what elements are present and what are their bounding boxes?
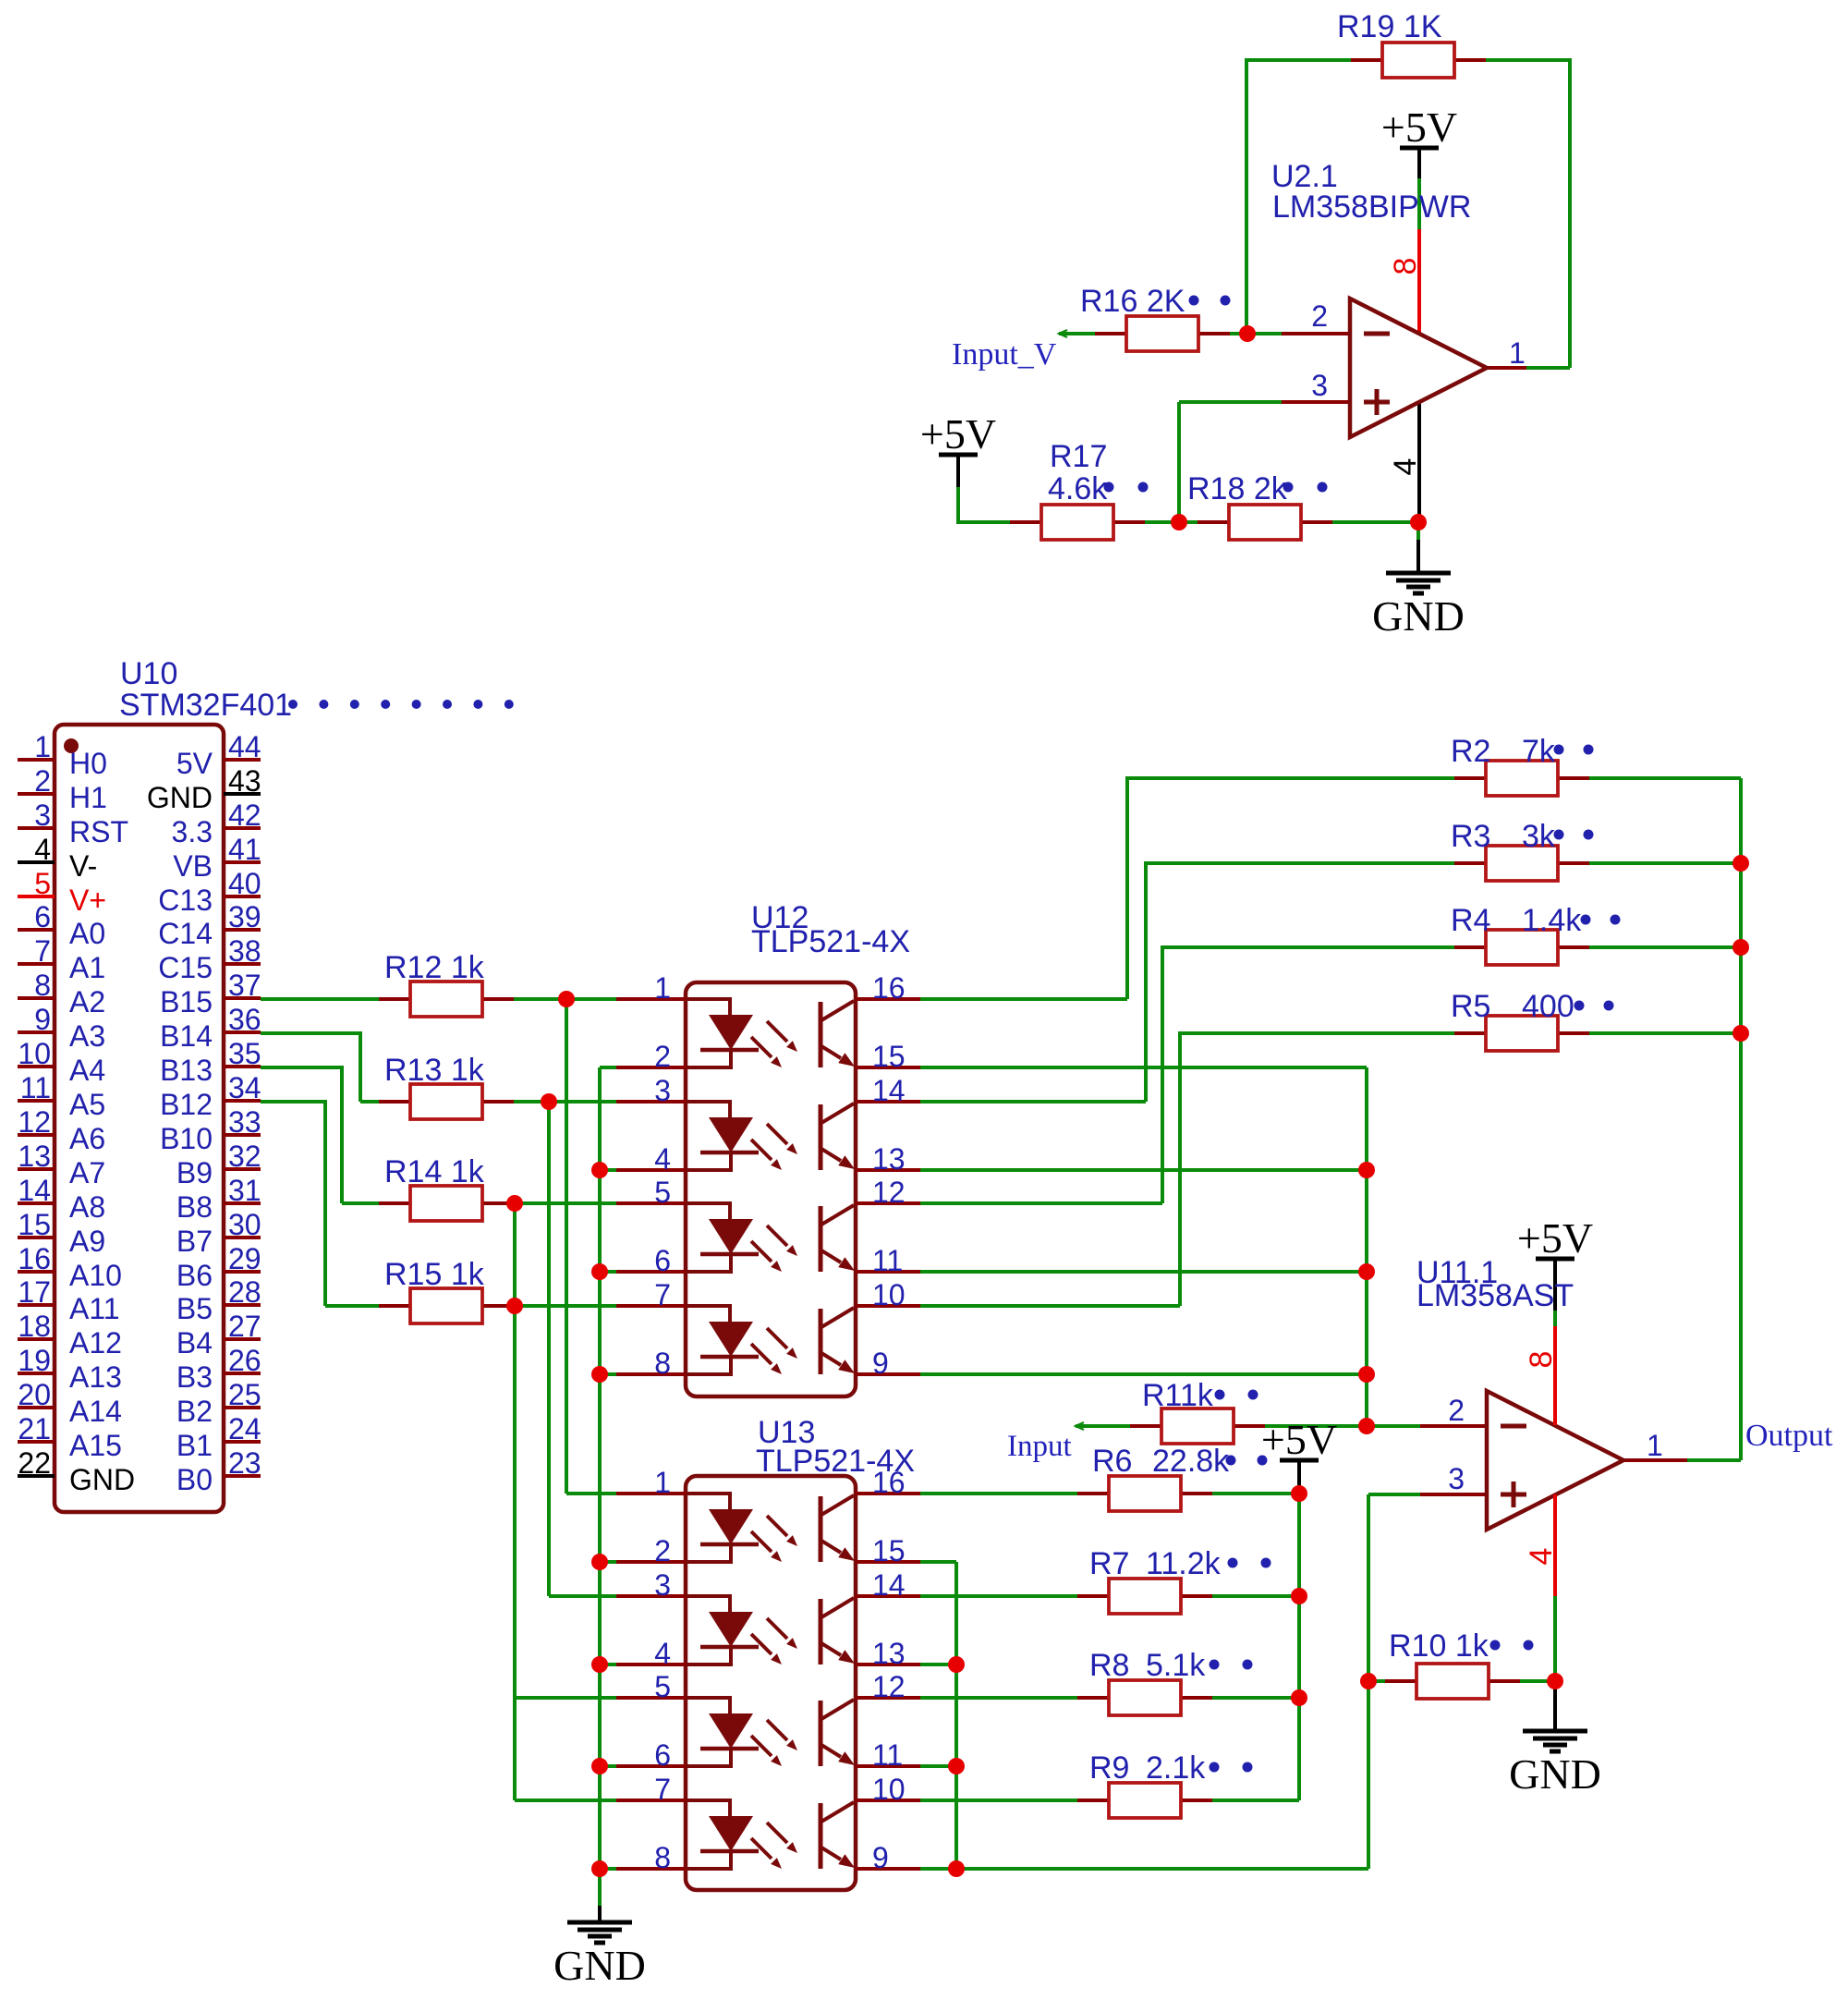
svg-text:4: 4 — [1388, 458, 1423, 476]
svg-text:B14: B14 — [160, 1019, 213, 1053]
svg-text:R3: R3 — [1451, 819, 1490, 854]
svg-text:+5V: +5V — [920, 410, 996, 457]
svg-text:35: 35 — [228, 1037, 261, 1070]
svg-text:18: 18 — [18, 1310, 51, 1343]
svg-text:42: 42 — [228, 799, 261, 832]
svg-text:22.8k: 22.8k — [1152, 1444, 1230, 1479]
svg-text:B7: B7 — [176, 1225, 213, 1258]
svg-text:10: 10 — [872, 1773, 906, 1806]
svg-text:3.3: 3.3 — [172, 815, 213, 848]
svg-text:5V: 5V — [176, 747, 213, 780]
svg-text:Input: Input — [1007, 1430, 1072, 1463]
svg-text:1: 1 — [1509, 336, 1526, 370]
svg-text:5: 5 — [654, 1176, 671, 1209]
svg-text:GND: GND — [553, 1942, 646, 1989]
svg-text:A4: A4 — [69, 1054, 105, 1087]
svg-text:10: 10 — [18, 1037, 51, 1070]
svg-text:R4: R4 — [1451, 903, 1490, 938]
svg-text:2: 2 — [1448, 1394, 1465, 1427]
svg-text:B1: B1 — [176, 1429, 213, 1462]
svg-text:R19 1K: R19 1K — [1337, 9, 1442, 44]
svg-text:11: 11 — [872, 1738, 903, 1772]
svg-text:B6: B6 — [176, 1259, 213, 1292]
svg-text:7: 7 — [654, 1773, 671, 1806]
svg-text:21: 21 — [18, 1412, 51, 1445]
svg-text:3k: 3k — [1522, 819, 1556, 854]
svg-text:B5: B5 — [176, 1292, 213, 1325]
svg-text:3: 3 — [1311, 369, 1328, 402]
svg-text:C14: C14 — [158, 917, 213, 950]
svg-text:2: 2 — [654, 1534, 671, 1567]
svg-text:H0: H0 — [69, 747, 107, 780]
svg-text:R9: R9 — [1089, 1750, 1129, 1786]
svg-text:15: 15 — [872, 1040, 906, 1073]
svg-text:B0: B0 — [176, 1463, 213, 1496]
svg-text:A3: A3 — [69, 1019, 105, 1053]
svg-text:+5V: +5V — [1381, 104, 1457, 151]
svg-text:GND: GND — [147, 781, 213, 814]
svg-text:STM32F401: STM32F401 — [119, 688, 292, 723]
svg-text:A6: A6 — [69, 1122, 105, 1155]
svg-text:B12: B12 — [160, 1088, 213, 1121]
svg-text:9: 9 — [34, 1003, 51, 1036]
svg-text:5.1k: 5.1k — [1146, 1648, 1206, 1683]
svg-text:3: 3 — [654, 1074, 671, 1107]
svg-text:3: 3 — [34, 799, 51, 832]
svg-text:2: 2 — [1311, 299, 1328, 333]
svg-text:31: 31 — [228, 1174, 261, 1207]
svg-text:R11k: R11k — [1142, 1378, 1214, 1413]
svg-text:A0: A0 — [69, 917, 105, 950]
svg-text:B3: B3 — [176, 1360, 213, 1394]
svg-text:A9: A9 — [69, 1225, 105, 1258]
svg-text:A10: A10 — [69, 1259, 122, 1292]
svg-text:7: 7 — [654, 1278, 671, 1311]
svg-text:11: 11 — [20, 1071, 51, 1104]
svg-text:8: 8 — [654, 1841, 671, 1874]
svg-text:A11: A11 — [69, 1292, 120, 1325]
svg-text:25: 25 — [228, 1378, 261, 1411]
svg-text:30: 30 — [228, 1208, 261, 1241]
svg-text:22: 22 — [18, 1446, 51, 1480]
svg-text:3: 3 — [1448, 1462, 1465, 1495]
svg-text:41: 41 — [228, 833, 261, 866]
svg-text:38: 38 — [228, 934, 261, 968]
svg-text:B2: B2 — [176, 1395, 213, 1428]
svg-text:16: 16 — [18, 1242, 51, 1275]
svg-text:+5V: +5V — [1261, 1416, 1337, 1463]
svg-text:37: 37 — [228, 969, 261, 1002]
svg-text:A1: A1 — [69, 951, 105, 984]
svg-text:B8: B8 — [176, 1190, 213, 1224]
svg-text:6: 6 — [654, 1244, 671, 1277]
svg-text:R15 1k: R15 1k — [384, 1257, 485, 1292]
svg-text:12: 12 — [872, 1670, 906, 1703]
svg-text:R5: R5 — [1451, 989, 1490, 1024]
svg-text:40: 40 — [228, 867, 261, 900]
svg-text:A14: A14 — [69, 1395, 122, 1428]
svg-text:15: 15 — [872, 1534, 906, 1567]
svg-text:32: 32 — [228, 1140, 261, 1173]
svg-text:400: 400 — [1522, 989, 1574, 1024]
svg-text:B13: B13 — [160, 1054, 213, 1087]
svg-text:A8: A8 — [69, 1190, 105, 1224]
svg-text:4: 4 — [654, 1637, 671, 1670]
svg-text:44: 44 — [228, 730, 261, 763]
svg-text:1: 1 — [654, 1466, 671, 1499]
svg-text:29: 29 — [228, 1242, 261, 1275]
svg-text:6: 6 — [34, 900, 51, 933]
svg-text:R17: R17 — [1050, 439, 1107, 474]
svg-text:R13 1k: R13 1k — [384, 1053, 485, 1088]
svg-text:4: 4 — [34, 833, 51, 866]
svg-text:GND: GND — [69, 1463, 135, 1496]
svg-text:27: 27 — [228, 1310, 261, 1343]
svg-text:TLP521-4X: TLP521-4X — [756, 1444, 915, 1479]
svg-text:TLP521-4X: TLP521-4X — [751, 924, 910, 959]
svg-text:RST: RST — [69, 815, 128, 848]
svg-text:A5: A5 — [69, 1088, 105, 1121]
svg-text:12: 12 — [18, 1105, 51, 1139]
svg-text:20: 20 — [18, 1378, 51, 1411]
svg-text:R16 2K: R16 2K — [1080, 284, 1185, 319]
svg-text:4: 4 — [1524, 1548, 1559, 1566]
svg-text:13: 13 — [18, 1140, 51, 1173]
svg-text:A7: A7 — [69, 1156, 105, 1189]
svg-text:2: 2 — [34, 764, 51, 798]
svg-text:4: 4 — [654, 1142, 671, 1176]
svg-text:11: 11 — [872, 1244, 903, 1277]
svg-text:Output: Output — [1745, 1419, 1833, 1453]
svg-text:13: 13 — [872, 1637, 906, 1670]
svg-text:28: 28 — [228, 1275, 261, 1309]
svg-text:A2: A2 — [69, 985, 105, 1018]
svg-text:13: 13 — [872, 1142, 906, 1176]
svg-text:A13: A13 — [69, 1360, 122, 1394]
svg-text:B4: B4 — [176, 1326, 213, 1360]
svg-text:14: 14 — [872, 1568, 906, 1602]
svg-text:39: 39 — [228, 900, 261, 933]
svg-text:15: 15 — [18, 1208, 51, 1241]
svg-text:34: 34 — [228, 1071, 261, 1104]
svg-text:2.1k: 2.1k — [1146, 1750, 1206, 1786]
svg-text:VB: VB — [173, 849, 213, 883]
svg-text:7k: 7k — [1522, 734, 1556, 769]
svg-text:19: 19 — [18, 1344, 51, 1377]
svg-text:R12 1k: R12 1k — [384, 950, 485, 985]
svg-text:17: 17 — [18, 1275, 51, 1309]
svg-text:14: 14 — [872, 1074, 906, 1107]
svg-text:R2: R2 — [1451, 734, 1490, 769]
svg-text:B9: B9 — [176, 1156, 213, 1189]
svg-text:26: 26 — [228, 1344, 261, 1377]
svg-text:C15: C15 — [158, 951, 213, 984]
svg-text:R18 2k: R18 2k — [1187, 471, 1288, 506]
svg-text:43: 43 — [228, 764, 261, 798]
svg-text:3: 3 — [654, 1568, 671, 1602]
svg-text:5: 5 — [654, 1670, 671, 1703]
svg-text:11.2k: 11.2k — [1146, 1546, 1222, 1581]
svg-text:1: 1 — [654, 971, 671, 1005]
svg-text:A12: A12 — [69, 1326, 122, 1360]
svg-text:C13: C13 — [158, 884, 213, 917]
svg-text:8: 8 — [654, 1347, 671, 1380]
svg-text:H1: H1 — [69, 781, 107, 814]
svg-text:B15: B15 — [160, 985, 213, 1018]
svg-text:V+: V+ — [69, 884, 106, 917]
svg-text:7: 7 — [34, 934, 51, 968]
svg-text:4.6k: 4.6k — [1048, 471, 1108, 506]
svg-text:24: 24 — [228, 1412, 261, 1445]
svg-text:Input_V: Input_V — [952, 337, 1057, 372]
svg-text:R14 1k: R14 1k — [384, 1154, 485, 1189]
svg-text:V-: V- — [69, 849, 97, 883]
svg-text:9: 9 — [872, 1841, 889, 1874]
svg-text:23: 23 — [228, 1446, 261, 1480]
svg-text:1: 1 — [1647, 1429, 1663, 1462]
svg-text:36: 36 — [228, 1003, 261, 1036]
svg-text:+5V: +5V — [1517, 1214, 1593, 1262]
svg-text:8: 8 — [1524, 1351, 1559, 1369]
svg-text:R8: R8 — [1089, 1648, 1129, 1683]
svg-text:10: 10 — [872, 1278, 906, 1311]
svg-text:2: 2 — [654, 1040, 671, 1073]
svg-text:LM358AST: LM358AST — [1416, 1278, 1574, 1313]
svg-text:33: 33 — [228, 1105, 261, 1139]
svg-text:B10: B10 — [160, 1122, 213, 1155]
svg-text:8: 8 — [1388, 258, 1423, 275]
svg-text:U10: U10 — [120, 656, 177, 691]
svg-text:R7: R7 — [1089, 1546, 1129, 1581]
svg-text:R10 1k: R10 1k — [1389, 1628, 1489, 1664]
svg-text:5: 5 — [34, 867, 51, 900]
svg-text:A15: A15 — [69, 1429, 122, 1462]
svg-text:8: 8 — [34, 969, 51, 1002]
svg-text:16: 16 — [872, 971, 906, 1005]
svg-text:6: 6 — [654, 1738, 671, 1772]
svg-text:1.4k: 1.4k — [1522, 903, 1582, 938]
svg-text:LM358BIPWR: LM358BIPWR — [1272, 189, 1471, 225]
svg-text:R6: R6 — [1092, 1444, 1132, 1479]
svg-text:9: 9 — [872, 1347, 889, 1380]
svg-text:12: 12 — [872, 1176, 906, 1209]
svg-text:GND: GND — [1372, 592, 1465, 640]
svg-text:1: 1 — [34, 730, 51, 763]
svg-text:GND: GND — [1509, 1750, 1601, 1798]
svg-text:14: 14 — [18, 1174, 51, 1207]
